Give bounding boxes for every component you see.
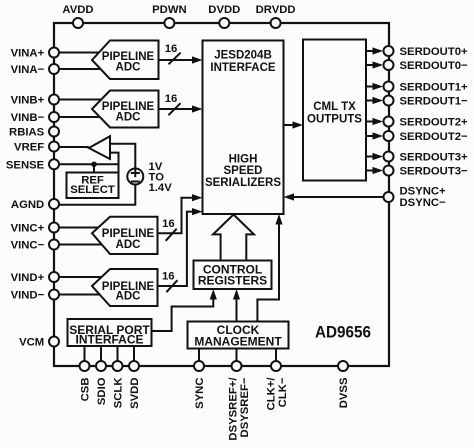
svg-text:CSB: CSB	[80, 378, 92, 402]
svg-text:SYNC: SYNC	[194, 378, 206, 409]
pin DRVDD	[271, 18, 281, 28]
pin AGND	[49, 199, 59, 209]
svg-text:DRVDD: DRVDD	[256, 4, 296, 16]
pin SYNC	[194, 361, 204, 371]
wire amp plus input to source	[110, 144, 135, 169]
wire SVDD stub	[133, 346, 135, 366]
svg-text:DSYSREF−: DSYSREF−	[239, 377, 251, 437]
pin SCLK	[113, 361, 123, 371]
svg-text:ADC: ADC	[116, 112, 141, 124]
pin SERDOUT1+	[384, 82, 394, 92]
svg-text:16: 16	[165, 43, 178, 55]
arrow JESD to CML	[293, 121, 304, 128]
pipeline ADC C	[92, 217, 158, 254]
wire ADC D to JESD	[158, 212, 197, 286]
arrow to SERDOUT3-	[373, 167, 384, 174]
pin SERDOUT3-	[384, 166, 394, 176]
wire junction stub to REF SELECT	[93, 164, 95, 172]
svg-text:VINB+: VINB+	[11, 95, 45, 107]
wire DSYNC to serializers	[290, 196, 383, 198]
pin DSYNC	[384, 192, 394, 202]
svg-text:SERDOUT2−: SERDOUT2−	[400, 131, 469, 143]
wire CML to SERDOUT1-	[366, 100, 378, 102]
pin VCM	[49, 337, 59, 347]
CML TX block	[303, 40, 366, 181]
svg-text:SERIALIZERS: SERIALIZERS	[205, 177, 281, 189]
wire VINA+	[59, 52, 102, 54]
wire ADC C to JESD	[158, 198, 197, 234]
arrow ADC B out	[192, 105, 203, 112]
pin AVDD	[73, 18, 83, 28]
pin SERDOUT0-	[384, 60, 394, 70]
arrow to SERDOUT0-	[373, 61, 384, 68]
svg-text:RBIAS: RBIAS	[9, 127, 45, 139]
arrow to SERDOUT2-	[373, 132, 384, 139]
arrow SPI to CR	[210, 289, 217, 300]
wire SPI to control registers	[152, 295, 214, 331]
wire SDIO stub	[100, 346, 102, 366]
wire AGND to source bottom	[59, 185, 135, 205]
svg-text:CML TX: CML TX	[313, 101, 356, 113]
pin SERDOUT2+	[384, 117, 394, 127]
pin DVSS	[338, 361, 348, 371]
arrow to SERDOUT2+	[373, 118, 384, 125]
pin SERDOUT0+	[384, 46, 394, 56]
svg-text:SERDOUT1+: SERDOUT1+	[400, 82, 469, 94]
amp triangle	[89, 136, 110, 159]
pin SERDOUT2-	[384, 131, 394, 141]
wire clock mgmt to control registers	[236, 295, 238, 322]
bus slash A	[169, 53, 181, 65]
svg-text:AVDD: AVDD	[62, 4, 93, 16]
junction dot SENSE	[91, 162, 97, 168]
pin SERDOUT3+	[384, 152, 394, 162]
svg-text:HIGH: HIGH	[229, 154, 258, 166]
arrow to SERDOUT1-	[373, 97, 384, 104]
pin RBIAS	[49, 127, 59, 137]
wire SCLK stub	[117, 346, 119, 366]
svg-text:DVDD: DVDD	[208, 4, 240, 16]
svg-text:DSYNC−: DSYNC−	[400, 197, 447, 209]
SERIAL PORT INTERFACE box	[68, 319, 152, 346]
pin VIND+	[49, 272, 59, 282]
pin PDWN	[164, 18, 174, 28]
wire VINB+	[59, 99, 102, 101]
wire amp minus input	[110, 153, 119, 173]
arrow DSYNC into serializers	[284, 193, 295, 200]
wire CML to SERDOUT0-	[366, 64, 378, 66]
svg-text:CLK−: CLK−	[277, 377, 289, 407]
svg-text:SERDOUT3+: SERDOUT3+	[400, 152, 469, 164]
svg-text:SERDOUT3−: SERDOUT3−	[400, 166, 469, 178]
svg-text:ADC: ADC	[116, 62, 141, 74]
svg-text:DSYNC+: DSYNC+	[400, 186, 447, 198]
voltage source 1V-1.4V	[127, 169, 143, 185]
pin VINC+	[49, 223, 59, 233]
svg-text:SVDD: SVDD	[129, 378, 141, 409]
wire VIND+	[59, 276, 102, 278]
svg-text:VINC+: VINC+	[11, 223, 45, 235]
svg-text:SERDOUT1−: SERDOUT1−	[400, 96, 469, 108]
pin circles	[49, 18, 394, 371]
svg-text:INTERFACE: INTERFACE	[210, 62, 276, 74]
svg-text:JESD204B: JESD204B	[214, 50, 272, 62]
wire ADC A to JESD	[159, 59, 197, 61]
svg-text:CLK+/: CLK+/	[266, 377, 278, 411]
pin DVDD	[219, 18, 229, 28]
wire DSYSREF stub	[236, 349, 238, 367]
svg-text:AGND: AGND	[11, 199, 44, 211]
arrow CM to CR	[233, 289, 240, 300]
svg-text:SPEED: SPEED	[224, 165, 263, 177]
svg-text:1.4V: 1.4V	[149, 182, 173, 194]
svg-text:16: 16	[162, 271, 175, 283]
svg-text:SERDOUT0+: SERDOUT0+	[400, 46, 469, 58]
svg-text:ADC: ADC	[116, 239, 141, 251]
JESD204B / serializers block U1	[203, 41, 284, 215]
svg-text:DSYSREF+/: DSYSREF+/	[228, 377, 240, 441]
wire CML to SERDOUT1+	[366, 86, 378, 88]
bus slash B	[168, 103, 180, 115]
pin SENSE	[49, 159, 59, 169]
wire VIND-	[59, 294, 102, 296]
wire CML to SERDOUT2-	[366, 135, 378, 137]
arrow to SERDOUT1+	[373, 83, 384, 90]
pipeline ADC A	[92, 41, 159, 80]
arrow CM to serializers	[275, 214, 282, 225]
REF SELECT box	[67, 173, 119, 199]
wire VINA-	[59, 68, 102, 70]
svg-text:PDWN: PDWN	[152, 4, 187, 16]
svg-text:SCLK: SCLK	[113, 377, 125, 409]
pin SVDD	[129, 361, 139, 371]
pin VREF	[49, 142, 59, 152]
svg-text:ADC: ADC	[116, 291, 141, 303]
pin CLK	[271, 361, 281, 371]
svg-text:MANAGEMENT: MANAGEMENT	[194, 335, 282, 349]
CLOCK MANAGEMENT box	[188, 322, 289, 349]
pipeline ADC B	[92, 91, 159, 128]
wire CLK stub	[275, 349, 277, 367]
wire VREF to amp	[59, 146, 89, 148]
pin SERDOUT1-	[384, 96, 394, 106]
svg-text:SELECT: SELECT	[70, 184, 115, 196]
pin VINC-	[49, 240, 59, 250]
pin VIND-	[49, 290, 59, 300]
arrowheads	[91, 47, 383, 299]
svg-text:SDIO: SDIO	[96, 377, 108, 405]
pin VINB+	[49, 95, 59, 105]
bus slash D	[166, 280, 177, 292]
arrow ADC A out	[192, 56, 203, 63]
hollow arrow control registers to serializers	[213, 215, 254, 261]
svg-text:VINB−: VINB−	[11, 112, 45, 124]
arrow ADC C out	[192, 194, 203, 201]
svg-text:AD9656: AD9656	[315, 323, 371, 342]
svg-text:DVSS: DVSS	[338, 377, 350, 408]
wire CSB stub	[84, 346, 86, 366]
wire CML to SERDOUT3+	[366, 156, 378, 158]
wire VINB-	[59, 116, 102, 118]
svg-text:VINC−: VINC−	[11, 240, 45, 252]
svg-text:SERDOUT2+: SERDOUT2+	[400, 117, 469, 129]
svg-text:OUTPUTS: OUTPUTS	[307, 114, 362, 126]
svg-text:REGISTERS: REGISTERS	[198, 274, 267, 288]
pin VINA-	[49, 64, 59, 74]
CONTROL REGISTERS box	[194, 261, 272, 290]
pin VINB-	[49, 112, 59, 122]
svg-text:VIND−: VIND−	[11, 290, 45, 302]
wire JESD to CML	[284, 124, 298, 126]
pin CSB	[80, 361, 90, 371]
svg-text:VREF: VREF	[14, 142, 44, 154]
pin SDIO	[96, 361, 106, 371]
wire VINC+	[59, 227, 102, 229]
pipeline ADC D	[92, 269, 158, 306]
wire clock mgmt to serializers	[257, 220, 279, 322]
svg-text:VINA−: VINA−	[11, 64, 45, 76]
arrow to SERDOUT3+	[373, 153, 384, 160]
pin DSYSREF	[232, 361, 242, 371]
svg-text:16: 16	[165, 93, 178, 105]
arrow ADC D out	[192, 208, 203, 215]
svg-text:SERDOUT0−: SERDOUT0−	[400, 60, 469, 72]
wire CML to SERDOUT2+	[366, 121, 378, 123]
wire SYNC stub	[198, 349, 200, 367]
wire VINC-	[59, 244, 102, 246]
wire CML to SERDOUT3-	[366, 170, 378, 172]
wire CML to SERDOUT0+	[366, 50, 378, 52]
wire SENSE	[59, 163, 119, 165]
svg-text:VIND+: VIND+	[11, 272, 45, 284]
pin VINA+	[49, 48, 59, 58]
svg-text:SENSE: SENSE	[6, 159, 45, 171]
wire ADC B to JESD	[159, 108, 197, 110]
svg-text:INTERFACE: INTERFACE	[75, 333, 143, 347]
svg-text:VCM: VCM	[19, 337, 44, 349]
svg-text:16: 16	[162, 218, 175, 230]
svg-text:VINA+: VINA+	[11, 48, 45, 60]
outer box	[54, 23, 389, 366]
bus slash C	[166, 229, 177, 241]
arrow to SERDOUT0+	[373, 47, 384, 54]
